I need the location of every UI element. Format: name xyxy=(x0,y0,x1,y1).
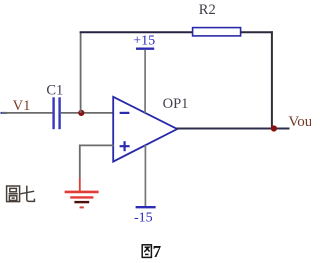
junction: inverting input node xyxy=(78,110,84,116)
wire: non-inverting input stub xyxy=(80,144,114,146)
label C1 xyxy=(46,82,63,98)
svg-text:OP1: OP1 xyxy=(163,96,189,112)
label OP1 xyxy=(163,96,189,112)
node V1 (input net label) xyxy=(13,98,31,114)
wire: +15 rail to op-amp top xyxy=(144,50,146,113)
wire: output (apex to Vout) xyxy=(177,128,290,130)
svg-text:-15: -15 xyxy=(134,211,153,226)
node Vout (output net label) xyxy=(288,114,317,130)
svg-text:V1: V1 xyxy=(13,98,31,114)
label R2 xyxy=(199,2,216,18)
ground xyxy=(65,192,99,208)
wire: down to ground (red part) xyxy=(79,178,81,192)
wire: top rail right (R2 to corner) xyxy=(241,31,273,33)
wire: top rail left (to R2) xyxy=(80,31,193,33)
figure caption 图7 (drawn 图 + text 7) xyxy=(142,245,151,258)
wire: V1 source stub (blue) xyxy=(1,112,8,114)
label -15 xyxy=(134,211,153,226)
capacitor C1 xyxy=(52,97,60,129)
svg-text:+15: +15 xyxy=(133,33,155,48)
wire: right drop (corner down to output) xyxy=(271,31,273,128)
wire: C1 right plate to inverting input xyxy=(61,112,114,114)
wire: op-amp bottom to -15 rail xyxy=(144,145,146,206)
power -15 bar xyxy=(136,206,156,208)
svg-text:7: 7 xyxy=(153,242,162,261)
svg-text:C1: C1 xyxy=(46,82,63,98)
wire: down to ground (gray part) xyxy=(79,145,81,179)
svg-text:Vout: Vout xyxy=(288,114,311,130)
power +15 bar xyxy=(136,48,154,50)
pin: non-inverting input (plus) xyxy=(120,141,130,151)
wire: V1 to C1 left plate xyxy=(2,112,52,114)
label +15 xyxy=(133,33,155,48)
svg-text:R2: R2 xyxy=(199,2,216,18)
resistor R2 xyxy=(193,28,241,36)
wire: feedback riser (junction up to top rail) xyxy=(80,32,82,113)
pin: inverting input (minus) xyxy=(120,112,130,114)
figure caption 圖七 (drawn glyphs) xyxy=(7,186,35,202)
junction: output node xyxy=(271,125,277,131)
op-amp OP1 xyxy=(113,97,177,162)
